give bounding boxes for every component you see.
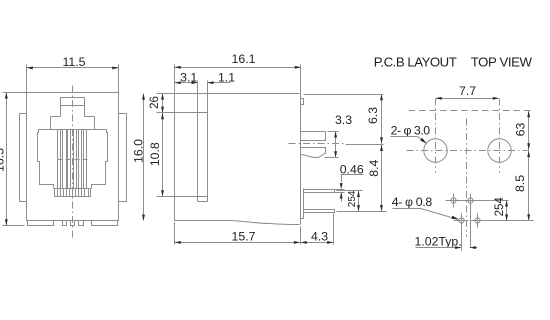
pin hole A — [451, 198, 456, 203]
extension lines for slot dims — [197, 81, 199, 113]
pin hole B — [468, 198, 473, 203]
svg-text:254: 254 — [347, 190, 358, 207]
mounting hole left 3.0 — [424, 139, 447, 162]
svg-text:16.1: 16.1 — [232, 52, 256, 66]
dimension 10.8 — [162, 113, 164, 197]
side view lower contact tab with break line — [301, 148, 326, 154]
front view right foot — [92, 221, 118, 226]
mounting hole right 3.0 — [488, 139, 511, 162]
svg-text:16.0: 16.0 — [131, 139, 145, 163]
front view contact mid ticks — [58, 159, 63, 161]
front view vertical centerline — [72, 86, 74, 238]
side view horizontal centerline — [289, 143, 346, 145]
svg-text:4- φ 0.8: 4- φ 0.8 — [392, 195, 433, 209]
central vertical axis PCB — [466, 119, 468, 237]
svg-text:15.7: 15.7 — [232, 229, 256, 243]
extension for 2.54 PCB top — [474, 200, 509, 202]
dimension 16.0 right of front view — [143, 94, 145, 221]
front view bottom pins — [63, 221, 67, 226]
front view left flange — [20, 114, 27, 202]
side view mounting slot — [198, 113, 208, 202]
svg-text:26: 26 — [149, 96, 161, 109]
svg-text:7.7: 7.7 — [459, 84, 476, 98]
front view outer body — [27, 93, 119, 221]
svg-text:254: 254 — [494, 197, 506, 217]
side view upper PCB pin — [304, 190, 335, 193]
svg-text:3.3: 3.3 — [335, 113, 352, 127]
dimension 26 — [162, 94, 164, 113]
dimension 6.3 side view — [381, 95, 383, 212]
svg-text:10.8: 10.8 — [148, 142, 162, 166]
front view right flange — [119, 114, 127, 202]
svg-text:1.02Typ.: 1.02Typ. — [415, 235, 462, 249]
front view contact comb — [57, 130, 59, 189]
svg-text:8.5: 8.5 — [513, 175, 527, 192]
front view cavity outline — [39, 129, 107, 131]
side view pin support rib — [301, 189, 304, 219]
horizontal centerline PCB — [407, 150, 528, 152]
side view right edge notch — [301, 99, 304, 105]
svg-text:2- φ 3.0: 2- φ 3.0 — [391, 124, 431, 138]
side view lower PCB pin — [304, 210, 335, 213]
svg-text:4.3: 4.3 — [311, 229, 328, 243]
dimension 16.5 left side clipped — [6, 93, 8, 226]
svg-text:16.5: 16.5 — [0, 148, 7, 172]
front view contact teeth row — [55, 189, 91, 197]
svg-text:P.C.B LAYOUT: P.C.B LAYOUT — [374, 55, 457, 70]
svg-text:8.4: 8.4 — [367, 159, 381, 176]
side view upper contact tab — [301, 132, 326, 141]
dimension chain 6.3 and 8.5 right side — [528, 111, 530, 221]
dimension 2.54 PCB — [506, 201, 508, 221]
pin hole C — [459, 218, 464, 223]
svg-text:63: 63 — [513, 123, 527, 137]
hidden outline dashed line PCB — [409, 110, 534, 112]
side view body outline — [175, 94, 300, 221]
svg-text:6.3: 6.3 — [366, 107, 380, 124]
svg-text:TOP VIEW: TOP VIEW — [471, 55, 533, 70]
front view left foot — [28, 221, 54, 226]
front view upper step — [51, 117, 95, 130]
pin hole D — [475, 218, 480, 223]
front view latch tab — [61, 98, 85, 117]
dimension 2.54 side view — [337, 190, 363, 192]
